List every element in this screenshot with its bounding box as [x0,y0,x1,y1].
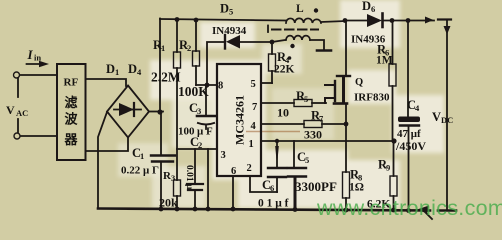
svg-text:DC: DC [441,115,453,125]
svg-text:100K: 100K [178,84,209,99]
svg-text:3: 3 [197,106,201,116]
capacitor C5 3300PF [288,141,306,209]
svg-text:1M: 1M [376,55,393,67]
wire top bus right [345,20,367,22]
svg-text:波: 波 [65,112,79,127]
wire gate from R5 [312,102,326,104]
svg-text:1: 1 [115,67,119,77]
svg-text:D: D [106,62,115,76]
arrow output top [425,17,434,24]
svg-text:2.2M: 2.2M [151,70,181,85]
svg-text:3: 3 [221,150,226,161]
wire input bottom [21,135,57,137]
arrow ground return [417,206,432,220]
wire RF to bridge top [86,79,127,86]
node R8 bottom [344,208,349,213]
node C2 ground [193,207,198,212]
svg-text:1: 1 [249,139,254,150]
wire pin8 [196,84,217,86]
terminal top-left [14,72,20,78]
svg-text:D: D [128,62,137,76]
wire bridge positive output [149,111,163,113]
resistor R1 2.2M [174,20,181,149]
svg-text:9: 9 [386,163,390,173]
svg-text:D: D [362,0,371,13]
svg-text:MC34261: MC34261 [233,95,247,145]
transistor Q IRF830 [325,76,350,104]
node C5 bottom [293,207,298,212]
svg-text:0.22: 0.22 [121,165,141,177]
node R9 bottom [391,208,396,213]
svg-text:0.01 μ: 0.01 μ [184,165,194,190]
svg-text:6: 6 [231,166,236,177]
node bridge positive [157,109,162,114]
IC U1 MC34261 [217,64,261,176]
svg-text:in: in [34,53,41,63]
svg-text:2: 2 [247,163,252,174]
RF filter box [57,64,86,160]
node source R7 [344,122,349,127]
wire pin2 [250,176,277,192]
resistor R9 6.2K [390,141,397,210]
core dashed line [267,26,269,33]
capacitor C3 100uF [197,85,215,129]
node feedback tap [391,138,396,143]
ground bus foot [438,209,456,212]
wire pin6 ground [232,176,234,209]
svg-text:2: 2 [187,43,191,53]
wire drain [345,21,347,76]
svg-text:5: 5 [305,155,309,165]
phase dot primary [314,8,318,12]
capacitor C2 0.01u [187,149,203,209]
svg-text:20k: 20k [159,196,178,210]
svg-text:I: I [27,47,34,62]
node D5-R4 junction [270,40,275,45]
svg-text:1: 1 [140,151,144,161]
node Vcc [205,83,210,88]
svg-text:0 1 μ f: 0 1 μ f [258,198,289,210]
svg-text:8: 8 [218,81,223,92]
svg-text:4: 4 [251,121,257,132]
wire positive rail riser [159,19,161,113]
node C4 top [406,18,411,23]
top bus left section [160,19,286,21]
svg-text:10: 10 [277,106,289,120]
arrow output rail down [444,26,451,35]
output corner T [438,18,451,20]
node pin6 ground [231,207,236,212]
resistor R4 22K [269,42,276,83]
svg-text:6: 6 [371,4,375,14]
capacitor C1 [151,112,175,209]
wire bridge negative to ground bus [98,112,107,208]
node R2 top [194,18,199,23]
svg-text:330: 330 [304,128,322,142]
wire input top [20,74,57,76]
svg-text:RF: RF [64,77,79,89]
ground bus bottom [98,209,430,211]
wire pin5 [261,82,272,84]
resistor R3 20k [174,149,181,209]
resistor R2 100K [193,20,200,85]
svg-text:V: V [432,110,441,124]
svg-text:6: 6 [270,183,274,193]
svg-text:/450V: /450V [395,139,426,153]
svg-text:5: 5 [304,94,308,104]
wire pin3 [177,148,217,150]
svg-text:D: D [220,2,229,16]
node divider ground [206,207,211,212]
resistor R8 1ohm [343,172,350,210]
svg-text:IRF830: IRF830 [354,92,390,104]
resistor R7 330 [261,121,346,128]
bridge inner diode [114,103,141,116]
diode D6 IN4936 [367,14,434,28]
svg-text:AC: AC [16,108,28,118]
capacitor C6 0.1uf [268,141,286,192]
svg-text:V: V [6,103,15,117]
node R1 top [175,17,180,22]
terminal bottom-left [14,133,20,139]
svg-text:3: 3 [171,173,175,183]
ground aux [317,49,331,52]
svg-text:5: 5 [251,79,256,90]
inductor L primary winding [286,18,345,23]
svg-text:1Ω: 1Ω [349,182,364,194]
capacitor C4 47uF [398,21,420,211]
arrow Iin [27,61,50,67]
wire source vertical [17,78,19,132]
phase dot aux [290,44,294,48]
resistor R5 10 [261,100,312,107]
diode D5 IN4934 [207,35,272,85]
svg-text:3300PF: 3300PF [295,179,337,194]
svg-text:滤: 滤 [65,95,78,110]
node R6 top [390,18,395,23]
resistor R6 1M [389,21,396,142]
svg-text:5: 5 [229,7,233,17]
svg-text:1: 1 [161,43,165,53]
svg-text:Q: Q [355,77,363,88]
svg-text:μ F: μ F [197,126,213,138]
svg-text:7: 7 [252,102,257,113]
node R3 ground [175,207,180,212]
scan artifact rust line [246,131,300,133]
svg-text:L: L [296,3,304,15]
svg-text:22K: 22K [274,64,295,76]
svg-text:IN4934: IN4934 [212,25,247,37]
svg-text:μ Γ: μ Γ [143,165,159,177]
svg-text:www.cntronics.com: www.cntronics.com [316,196,502,220]
node C1 ground [159,207,164,212]
svg-text:2: 2 [198,140,202,150]
wire output rail [446,20,448,210]
wire RF to bridge bottom [86,138,129,151]
bridge rectifier D1-D4 diamond [107,86,149,138]
node drain top [343,18,348,23]
node C4 bottom [406,208,411,213]
wire pin1 feedback [261,140,395,142]
node C6 top [275,139,279,143]
svg-text:器: 器 [64,132,79,147]
wire source down [345,104,347,173]
inductor L aux winding [272,36,324,50]
wire mult divider to ground [207,149,209,209]
